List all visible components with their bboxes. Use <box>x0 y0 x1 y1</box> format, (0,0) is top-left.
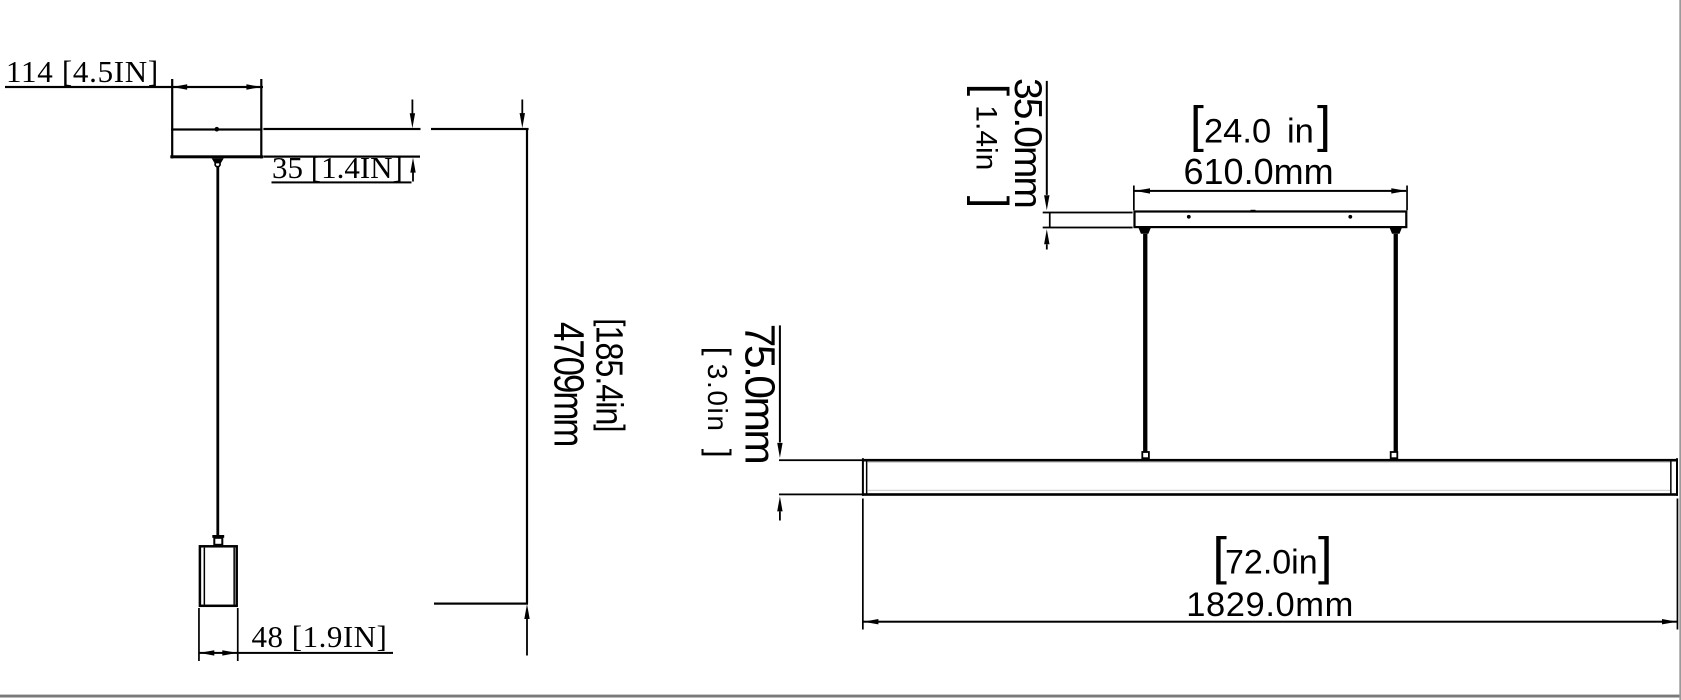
svg-text:610.0mm: 610.0mm <box>1184 151 1334 192</box>
svg-text:4709mm: 4709mm <box>545 322 592 445</box>
svg-text:114 [4.5IN]: 114 [4.5IN] <box>6 54 159 89</box>
svg-text:[185.4in]: [185.4in] <box>588 319 632 432</box>
svg-text:75.0mm: 75.0mm <box>736 324 783 463</box>
svg-text:1829.0mm: 1829.0mm <box>1186 586 1354 624</box>
svg-text:48 [1.9IN]: 48 [1.9IN] <box>252 619 388 654</box>
svg-text:35.0mm: 35.0mm <box>1006 78 1049 207</box>
svg-text:35 [1.4IN]: 35 [1.4IN] <box>272 150 403 185</box>
